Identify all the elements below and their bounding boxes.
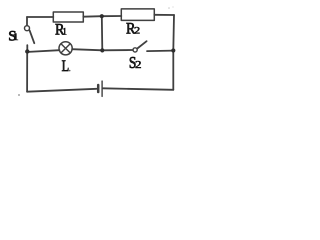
svg-text:2: 2 [134,26,140,36]
svg-text:2: 2 [135,59,142,70]
svg-text:L: L [62,58,70,76]
svg-text:1: 1 [13,33,19,43]
svg-text:1: 1 [62,28,67,38]
